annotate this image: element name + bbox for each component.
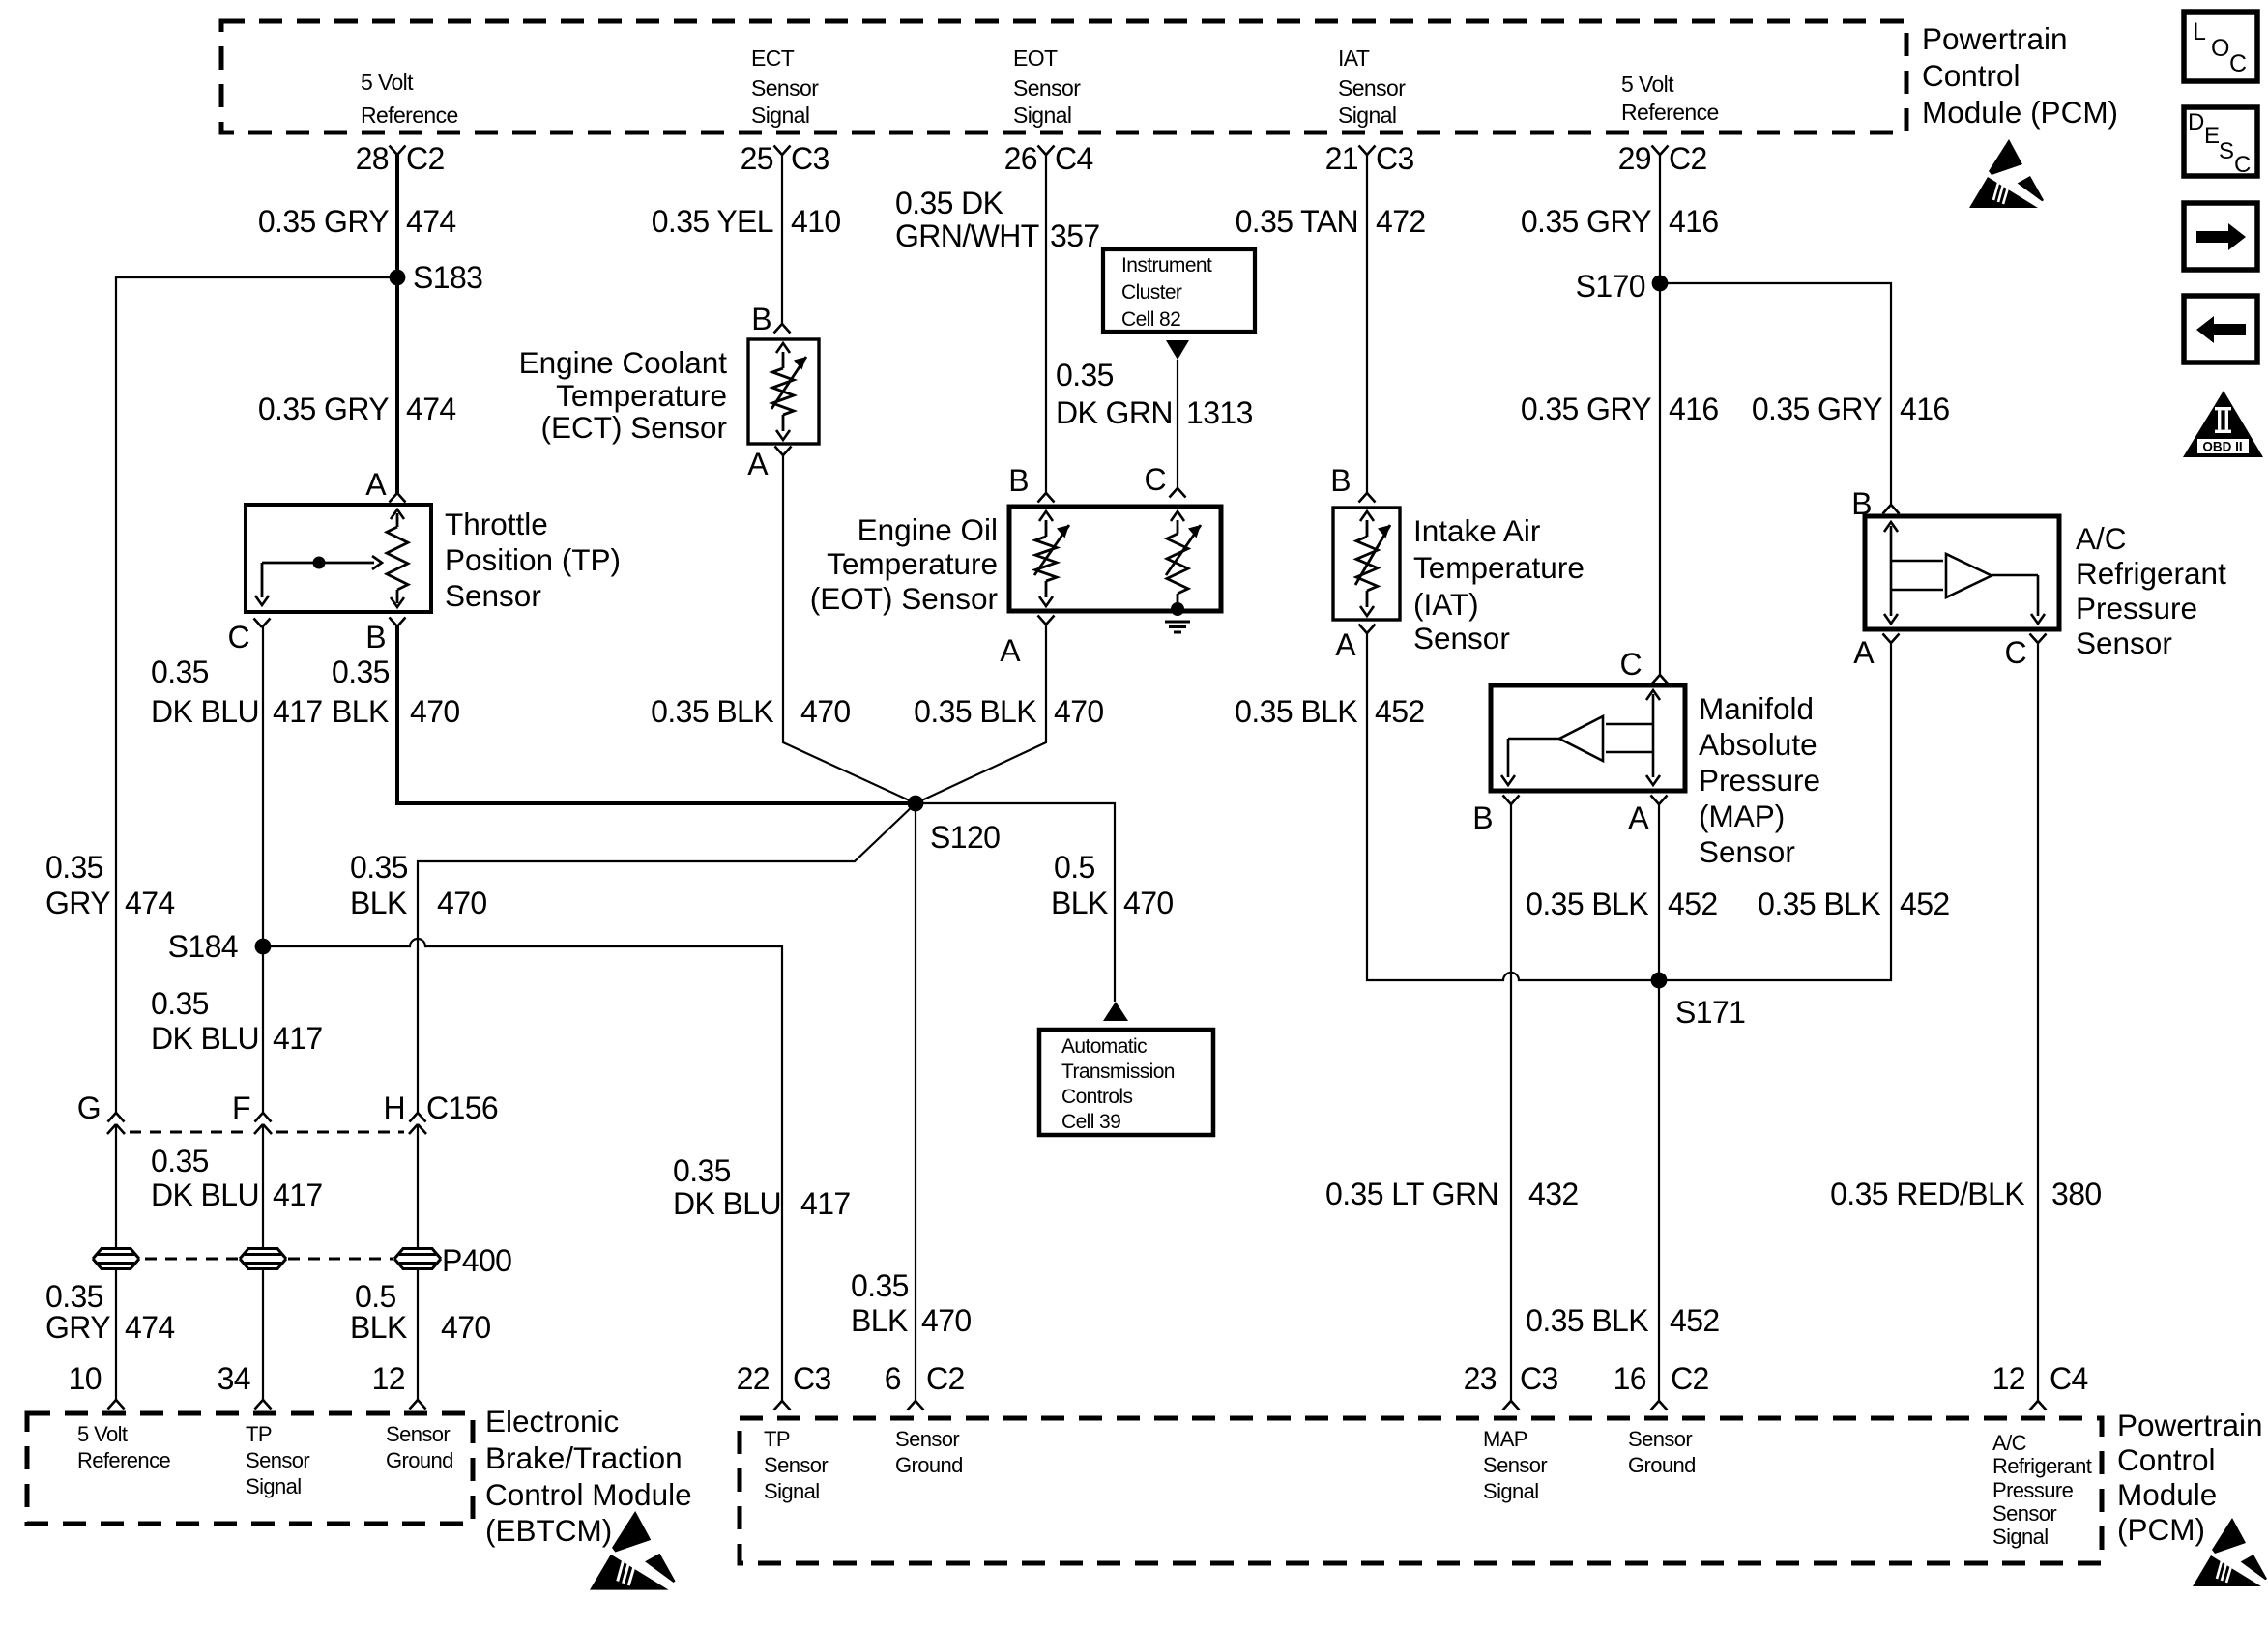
svg-text:472: 472 — [1376, 204, 1426, 239]
svg-text:Sensor: Sensor — [751, 75, 819, 101]
svg-text:28: 28 — [356, 141, 389, 176]
svg-text:S183: S183 — [413, 260, 482, 295]
svg-text:357: 357 — [1050, 218, 1100, 253]
svg-text:0.35: 0.35 — [332, 654, 390, 689]
svg-text:5 Volt: 5 Volt — [361, 70, 414, 95]
svg-text:0.35 GRY: 0.35 GRY — [258, 392, 389, 426]
svg-text:0.35 BLK: 0.35 BLK — [914, 694, 1036, 729]
svg-text:26: 26 — [1004, 141, 1037, 176]
svg-text:29: 29 — [1618, 141, 1651, 176]
svg-text:Position (TP): Position (TP) — [445, 542, 621, 577]
svg-text:0.35 GRY: 0.35 GRY — [258, 204, 389, 239]
svg-text:O: O — [2211, 35, 2229, 62]
svg-text:DK GRN: DK GRN — [1056, 395, 1173, 430]
IAT sensor thermistor element — [1366, 520, 1369, 537]
svg-text:C4: C4 — [2050, 1361, 2088, 1396]
svg-text:Temperature: Temperature — [1413, 550, 1585, 585]
svg-text:Electronic: Electronic — [485, 1404, 619, 1439]
svg-text:0.35: 0.35 — [851, 1268, 909, 1303]
pin B of TP sensor — [390, 618, 406, 627]
svg-text:C2: C2 — [1671, 1361, 1709, 1396]
svg-text:A: A — [1628, 800, 1649, 835]
node S170 — [1652, 276, 1669, 292]
svg-text:A: A — [747, 447, 769, 481]
svg-text:TP: TP — [246, 1422, 272, 1446]
svg-text:(EBTCM): (EBTCM) — [485, 1513, 612, 1548]
svg-text:Signal: Signal — [764, 1479, 820, 1503]
svg-text:DK BLU: DK BLU — [151, 1177, 259, 1212]
grommet P400 (left) — [93, 1249, 139, 1260]
pin 6 C2 of PCM — [908, 1401, 924, 1410]
wire: 0.35 DK GRN 1313 from instrument cluster to EOT pin C — [1177, 360, 1178, 488]
svg-text:474: 474 — [125, 886, 175, 920]
wire: 0.35 GRY 474 from pin 28 C2 to TP sensor pin A (bold) — [395, 155, 399, 493]
pin A of TP sensor — [390, 493, 406, 503]
svg-text:C: C — [1144, 462, 1166, 497]
wire: 0.35 RED/BLK 380 from A/C pin C to PCM pin 12 C4 — [2037, 643, 2039, 1401]
svg-text:C: C — [2229, 50, 2247, 77]
svg-text:Signal: Signal — [751, 102, 809, 128]
svg-text:Brake/Traction: Brake/Traction — [485, 1440, 683, 1475]
svg-text:MAP: MAP — [1483, 1427, 1527, 1451]
svg-text:Pressure: Pressure — [1699, 763, 1820, 798]
svg-text:Signal: Signal — [1013, 102, 1071, 128]
svg-text:C2: C2 — [926, 1361, 965, 1396]
node S120 — [908, 796, 924, 812]
svg-text:Automatic: Automatic — [1061, 1035, 1147, 1058]
svg-text:Refrigerant: Refrigerant — [2076, 556, 2226, 591]
wire: 0.35 BLK 470 from S120 to C156 pin H — [418, 803, 916, 1113]
svg-text:0.35 DK: 0.35 DK — [895, 186, 1003, 220]
wire: 0.35 GRY 416 from pin 29 C2 to MAP pin C — [1659, 155, 1661, 675]
module box: Powertrain Control Module (PCM), top — [221, 21, 1906, 132]
svg-text:0.35 GRY: 0.35 GRY — [1752, 392, 1882, 426]
svg-text:Throttle: Throttle — [445, 507, 548, 541]
svg-text:Sensor: Sensor — [1013, 75, 1081, 101]
svg-text:A: A — [1335, 627, 1356, 662]
svg-text:0.35 LT GRN: 0.35 LT GRN — [1325, 1177, 1498, 1211]
svg-text:Engine Oil: Engine Oil — [858, 512, 998, 547]
svg-text:G: G — [77, 1090, 101, 1125]
svg-text:GRN/WHT: GRN/WHT — [895, 218, 1039, 253]
wire: branch from S183 left and down to C156 pin G — [116, 277, 397, 1113]
svg-text:0.35 BLK: 0.35 BLK — [1526, 1303, 1648, 1338]
svg-text:B: B — [1008, 463, 1029, 498]
svg-text:Sensor: Sensor — [2076, 625, 2172, 660]
svg-text:470: 470 — [921, 1303, 972, 1338]
grommet P400 (middle) — [240, 1249, 286, 1260]
A/C refrigerant pressure sensor box — [1865, 516, 2059, 629]
svg-text:(MAP): (MAP) — [1699, 799, 1785, 833]
svg-text:Module (PCM): Module (PCM) — [1922, 95, 2118, 130]
grommet P400 (right) — [394, 1249, 441, 1260]
svg-text:0.35 TAN: 0.35 TAN — [1236, 204, 1358, 239]
off-page arrow to automatic transmission controls — [1103, 1002, 1128, 1021]
svg-text:Sensor: Sensor — [445, 578, 541, 613]
dashed link P400 — [145, 1258, 393, 1261]
svg-text:S171: S171 — [1675, 995, 1745, 1030]
svg-text:Sensor: Sensor — [1992, 1501, 2056, 1526]
right-arrow icon box — [2184, 203, 2257, 270]
svg-text:25: 25 — [741, 141, 773, 176]
svg-text:C3: C3 — [1376, 141, 1414, 176]
svg-text:Powertrain: Powertrain — [2117, 1408, 2263, 1442]
svg-text:(EOT) Sensor: (EOT) Sensor — [810, 581, 998, 616]
svg-text:474: 474 — [125, 1310, 175, 1345]
pin 22 C3 of PCM — [774, 1401, 791, 1410]
svg-text:0.35: 0.35 — [350, 850, 408, 885]
ESD symbol near top PCM — [1969, 139, 2045, 208]
module box: Powertrain Control Module (PCM), bottom — [740, 1418, 2102, 1563]
ESD symbol near bottom PCM — [2193, 1518, 2268, 1586]
wire: 0.35 BLK 470 from TP pin B to S120 (bold) — [397, 626, 916, 803]
svg-text:Signal: Signal — [246, 1474, 302, 1498]
svg-text:380: 380 — [2051, 1177, 2102, 1211]
EOT sensor thermistor element 1 — [1045, 520, 1048, 537]
ESD symbol near EBTCM — [590, 1511, 677, 1590]
svg-text:C3: C3 — [1520, 1361, 1558, 1396]
svg-text:Sensor: Sensor — [764, 1453, 828, 1477]
EOT internal ground — [1171, 602, 1184, 616]
pin A of MAP sensor — [1651, 796, 1668, 805]
svg-text:416: 416 — [1669, 392, 1719, 426]
svg-text:C156: C156 — [426, 1090, 498, 1125]
svg-text:Cluster: Cluster — [1121, 281, 1182, 304]
pin B of IAT sensor — [1359, 493, 1376, 503]
pin C of TP sensor — [254, 619, 271, 628]
svg-text:0.35: 0.35 — [45, 850, 103, 885]
svg-text:Module: Module — [2117, 1477, 2217, 1512]
svg-text:F: F — [232, 1090, 250, 1125]
svg-text:0.35: 0.35 — [151, 986, 209, 1021]
wire: 0.35 BLK 470 from S120 down to PCM pin 6 C2 — [915, 803, 916, 1401]
wire: 0.35 TAN 472 from pin 21 C3 to IAT sensor pin B — [1366, 155, 1368, 493]
off-page arrow from instrument cluster — [1166, 340, 1189, 360]
svg-text:B: B — [1330, 463, 1351, 498]
TP sensor potentiometer resistor — [396, 513, 399, 527]
svg-text:A: A — [1853, 635, 1875, 670]
svg-text:Temperature: Temperature — [556, 378, 727, 413]
svg-text:452: 452 — [1900, 887, 1950, 921]
svg-text:Temperature: Temperature — [827, 546, 998, 581]
pin B of A/C sensor — [1883, 505, 1900, 514]
svg-text:474: 474 — [406, 392, 456, 426]
svg-text:B: B — [365, 620, 386, 654]
svg-text:EOT: EOT — [1013, 45, 1058, 71]
svg-text:C: C — [2234, 152, 2251, 178]
svg-text:Sensor: Sensor — [1413, 621, 1510, 655]
svg-text:410: 410 — [791, 204, 841, 239]
svg-text:0.35 BLK: 0.35 BLK — [1526, 887, 1648, 921]
wire: 0.35 DK BLU 417 from S184 to PCM pin 22 C3 (hops over BLK wire) — [263, 939, 782, 1401]
svg-text:22: 22 — [737, 1361, 770, 1396]
svg-text:470: 470 — [441, 1310, 491, 1345]
svg-text:12: 12 — [1992, 1361, 2025, 1396]
svg-text:0.35 BLK: 0.35 BLK — [1758, 887, 1880, 921]
svg-text:0.35: 0.35 — [151, 654, 209, 689]
svg-text:23: 23 — [1464, 1361, 1497, 1396]
node S171 — [1651, 973, 1668, 989]
svg-text:GRY: GRY — [45, 886, 110, 920]
svg-text:Powertrain: Powertrain — [1922, 21, 2068, 56]
manifold absolute pressure MAP sensor box — [1491, 685, 1685, 791]
svg-text:Ground: Ground — [1628, 1453, 1696, 1477]
svg-text:Reference: Reference — [361, 102, 458, 128]
svg-text:BLK: BLK — [332, 694, 389, 729]
engine coolant temperature ECT sensor box — [748, 339, 819, 444]
svg-text:C2: C2 — [1669, 141, 1707, 176]
svg-text:GRY: GRY — [45, 1310, 110, 1345]
svg-text:0.35 RED/BLK: 0.35 RED/BLK — [1830, 1177, 2024, 1211]
pin A of A/C sensor — [1883, 634, 1900, 644]
svg-text:Instrument: Instrument — [1121, 254, 1212, 276]
pin B of EOT sensor — [1038, 493, 1055, 503]
svg-text:Sensor: Sensor — [1338, 75, 1406, 101]
svg-text:Absolute: Absolute — [1699, 727, 1817, 762]
wire: 0.35 BLK 452 from MAP pin A to S171 — [1658, 804, 1660, 980]
svg-text:L: L — [2193, 18, 2206, 45]
svg-text:Refrigerant: Refrigerant — [1992, 1454, 2092, 1478]
svg-text:10: 10 — [69, 1361, 102, 1396]
svg-text:BLK: BLK — [350, 886, 407, 920]
svg-text:C2: C2 — [406, 141, 445, 176]
svg-text:Control Module: Control Module — [485, 1477, 692, 1512]
svg-text:5 Volt: 5 Volt — [1621, 72, 1674, 97]
svg-text:ECT: ECT — [751, 45, 795, 71]
TP sensor wiper arrow — [262, 562, 374, 565]
svg-text:0.35 GRY: 0.35 GRY — [1521, 204, 1651, 239]
node S183 — [390, 270, 406, 286]
svg-text:C: C — [2004, 635, 2026, 670]
svg-text:0.5: 0.5 — [1054, 850, 1095, 885]
wire: 0.35 YEL 410 from pin 25 C3 to ECT sensor pin B — [781, 155, 783, 324]
svg-text:A: A — [365, 467, 387, 502]
pin C of A/C sensor — [2030, 634, 2047, 644]
svg-text:S120: S120 — [930, 820, 1000, 855]
pin 34 of EBTCM — [255, 1400, 272, 1410]
svg-text:D: D — [2188, 109, 2204, 135]
pin B of MAP sensor — [1503, 796, 1520, 805]
pin A of EOT sensor — [1038, 616, 1055, 625]
pin 12 C4 of PCM — [2030, 1401, 2047, 1410]
svg-text:470: 470 — [410, 694, 460, 729]
svg-text:DK BLU: DK BLU — [673, 1186, 781, 1221]
svg-text:1313: 1313 — [1186, 395, 1253, 430]
svg-text:416: 416 — [1900, 392, 1950, 426]
wire: branch from S170 to A/C sensor pin B — [1660, 283, 1891, 505]
svg-text:416: 416 — [1669, 204, 1719, 239]
wire: 0.35 BLK 452 from IAT pin A to S171 line and A/C sensor pin A — [1367, 633, 1891, 980]
svg-text:C3: C3 — [793, 1361, 831, 1396]
wire: 0.35 LT GRN 432 from MAP pin B to PCM pin 23 C3 — [1510, 804, 1512, 1401]
svg-text:Controls: Controls — [1061, 1086, 1132, 1108]
svg-text:0.35: 0.35 — [45, 1279, 103, 1314]
pin A of ECT sensor — [775, 447, 792, 456]
svg-text:IAT: IAT — [1338, 45, 1370, 71]
intake air temperature IAT sensor box — [1333, 508, 1400, 620]
svg-text:Cell 39: Cell 39 — [1061, 1111, 1120, 1133]
svg-text:S184: S184 — [168, 929, 238, 964]
svg-text:S: S — [2219, 138, 2234, 164]
pin 26 C4 — [1038, 146, 1055, 156]
svg-text:0.35 GRY: 0.35 GRY — [1521, 392, 1651, 426]
svg-text:S170: S170 — [1576, 269, 1645, 304]
svg-text:Manifold: Manifold — [1699, 691, 1814, 726]
svg-text:B: B — [751, 302, 771, 336]
pin 21 C3 — [1359, 146, 1376, 156]
svg-text:0.35 YEL: 0.35 YEL — [652, 204, 773, 239]
pin 16 C2 of PCM — [1651, 1401, 1668, 1410]
svg-text:470: 470 — [437, 886, 487, 920]
pin 10 of EBTCM — [108, 1400, 125, 1410]
svg-text:E: E — [2204, 123, 2220, 149]
svg-text:0.35: 0.35 — [673, 1153, 731, 1188]
svg-text:C: C — [1619, 647, 1642, 682]
svg-text:C3: C3 — [791, 141, 829, 176]
wire: 0.5 BLK 470 from S120 to automatic transmission controls — [916, 803, 1115, 1002]
svg-text:BLK: BLK — [350, 1310, 407, 1345]
svg-text:0.35 BLK: 0.35 BLK — [1235, 694, 1357, 729]
svg-text:34: 34 — [218, 1361, 250, 1396]
svg-text:Control: Control — [2117, 1442, 2216, 1477]
wire: 0.35 BLK 452 from S171 to PCM pin 16 C2 — [1658, 980, 1660, 1401]
svg-text:(PCM): (PCM) — [2117, 1512, 2205, 1547]
svg-text:Signal: Signal — [1483, 1479, 1539, 1503]
svg-text:0.35: 0.35 — [151, 1144, 209, 1178]
svg-text:C: C — [227, 620, 249, 654]
svg-text:0.35: 0.35 — [1056, 358, 1114, 392]
connector C156 pin G — [108, 1113, 125, 1122]
wire: 0.35 DK BLU 417 from TP pin C to S184 and C156 pin F — [262, 627, 264, 1113]
pin 12 of EBTCM — [410, 1400, 426, 1410]
ECT sensor thermistor element — [782, 352, 785, 368]
pin 25 C3 — [774, 146, 791, 156]
pin C of EOT sensor — [1170, 488, 1186, 498]
pin A of IAT sensor — [1359, 625, 1376, 634]
engine oil temperature EOT sensor box — [1009, 507, 1221, 611]
svg-text:452: 452 — [1668, 887, 1718, 921]
svg-text:Sensor: Sensor — [246, 1448, 309, 1472]
svg-text:Sensor: Sensor — [1699, 834, 1795, 869]
svg-text:0.35 BLK: 0.35 BLK — [651, 694, 773, 729]
svg-text:470: 470 — [1123, 886, 1174, 920]
pin 29 C2 — [1652, 146, 1669, 156]
instrument cluster reference box — [1103, 249, 1255, 332]
svg-text:DK BLU: DK BLU — [151, 1021, 259, 1056]
svg-text:(ECT) Sensor: (ECT) Sensor — [540, 410, 727, 445]
svg-text:Signal: Signal — [1338, 102, 1396, 128]
svg-text:OBD II: OBD II — [2202, 440, 2242, 454]
svg-text:452: 452 — [1375, 694, 1425, 729]
svg-text:474: 474 — [406, 204, 456, 239]
MAP sensor amplifier symbol — [1652, 694, 1655, 777]
svg-text:21: 21 — [1325, 141, 1358, 176]
svg-text:TP: TP — [764, 1427, 790, 1451]
svg-text:Cell 82: Cell 82 — [1121, 308, 1180, 331]
connector C156 pin H — [410, 1113, 426, 1122]
svg-text:12: 12 — [372, 1361, 405, 1396]
DESC icon box — [2184, 107, 2257, 176]
svg-text:417: 417 — [800, 1186, 851, 1221]
svg-text:A/C: A/C — [1992, 1431, 2027, 1455]
wire: 0.35 DK GRN/WHT 357 from pin 26 C4 to EOT sensor pin B — [1045, 155, 1047, 493]
svg-text:(IAT): (IAT) — [1413, 587, 1479, 622]
automatic transmission controls reference box — [1039, 1030, 1213, 1135]
svg-text:470: 470 — [800, 694, 851, 729]
svg-text:Ground: Ground — [386, 1448, 453, 1472]
svg-text:BLK: BLK — [851, 1303, 908, 1338]
pin C of MAP sensor — [1652, 675, 1669, 684]
connector C156 pin F — [255, 1113, 272, 1122]
left-arrow icon box — [2184, 296, 2257, 363]
svg-text:417: 417 — [273, 1177, 323, 1212]
throttle position sensor TP box — [246, 505, 431, 612]
svg-text:5 Volt: 5 Volt — [77, 1422, 128, 1446]
svg-text:417: 417 — [273, 1021, 323, 1056]
svg-text:16: 16 — [1614, 1361, 1646, 1396]
svg-text:DK BLU: DK BLU — [151, 694, 259, 729]
svg-text:Sensor: Sensor — [386, 1422, 450, 1446]
svg-text:417: 417 — [273, 694, 323, 729]
svg-text:Intake Air: Intake Air — [1413, 513, 1540, 548]
svg-text:Signal: Signal — [1992, 1525, 2049, 1549]
svg-text:Sensor: Sensor — [1628, 1427, 1692, 1451]
svg-text:Engine Coolant: Engine Coolant — [519, 345, 728, 380]
svg-text:C4: C4 — [1055, 141, 1093, 176]
node S184 — [255, 939, 272, 955]
A/C sensor amplifier symbol — [1890, 526, 1893, 616]
svg-text:BLK: BLK — [1051, 886, 1108, 920]
module box: Electronic Brake/Traction Control Module (EBTCM) — [27, 1413, 473, 1524]
svg-text:Pressure: Pressure — [1992, 1478, 2074, 1502]
svg-text:0.5: 0.5 — [355, 1279, 396, 1314]
svg-text:Sensor: Sensor — [1483, 1453, 1547, 1477]
svg-text:Sensor: Sensor — [895, 1427, 959, 1451]
svg-text:Reference: Reference — [77, 1448, 170, 1472]
svg-text:A: A — [1000, 633, 1021, 668]
svg-text:Control: Control — [1922, 58, 2021, 93]
svg-text:452: 452 — [1670, 1303, 1720, 1338]
svg-text:6: 6 — [885, 1361, 901, 1396]
svg-text:A/C: A/C — [2076, 521, 2127, 556]
svg-text:H: H — [383, 1090, 405, 1125]
svg-text:Ground: Ground — [895, 1453, 963, 1477]
pin 23 C3 of PCM — [1503, 1401, 1520, 1410]
svg-text:Transmission: Transmission — [1061, 1061, 1175, 1083]
wire: 0.35 BLK 470 from ECT pin A to S120 — [783, 455, 916, 803]
pin 28 C2 — [390, 146, 406, 156]
pin B of ECT sensor — [774, 324, 791, 334]
svg-text:Reference: Reference — [1621, 100, 1719, 125]
svg-text:Pressure: Pressure — [2076, 591, 2197, 625]
svg-text:B: B — [1472, 800, 1493, 835]
svg-text:470: 470 — [1054, 694, 1104, 729]
LOC icon box — [2184, 12, 2257, 81]
svg-text:432: 432 — [1528, 1177, 1579, 1211]
svg-text:P400: P400 — [442, 1243, 511, 1278]
OBD II triangle icon — [2183, 391, 2263, 457]
EOT sensor thermistor element 2 with ground — [1177, 520, 1179, 534]
dashed link C156 — [130, 1131, 404, 1134]
wire: 0.35 BLK 470 from EOT pin A to S120 — [916, 625, 1046, 803]
